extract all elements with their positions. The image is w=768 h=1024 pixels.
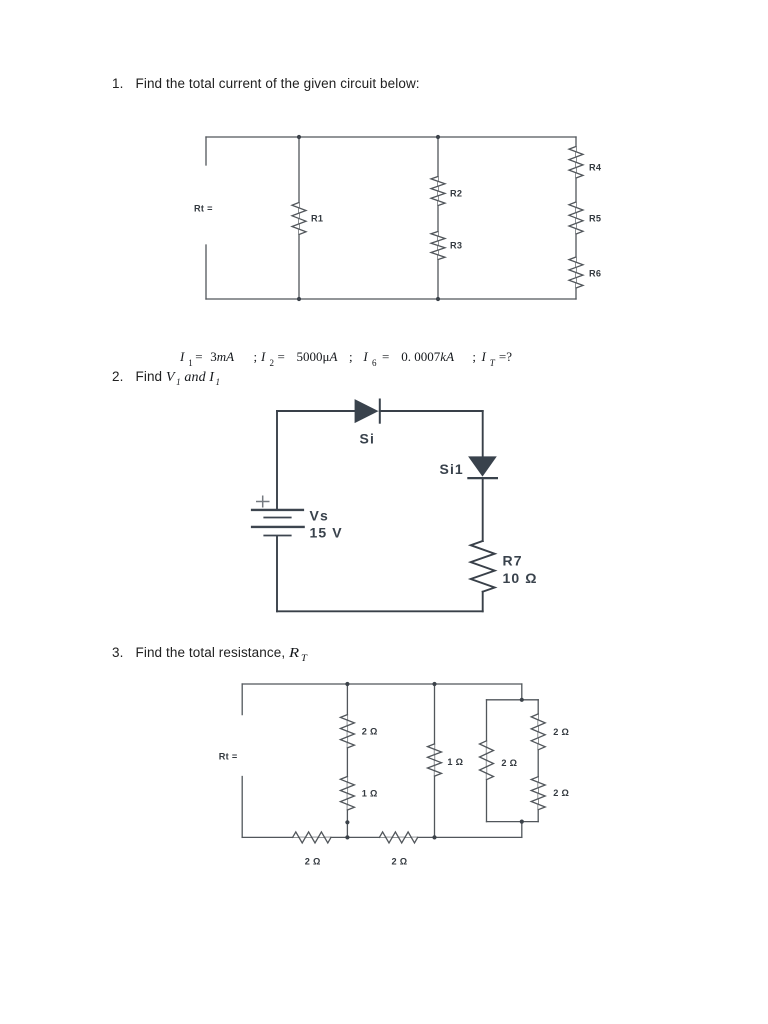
equation: ; I6 = 0.0007kA: [349, 349, 353, 365]
question 2 text: [112, 369, 220, 387]
wire R2/R3 branch: [437, 137, 439, 299]
circuit 3 bottom wire: [242, 836, 522, 838]
equation: I1 = 3mA: [180, 349, 184, 365]
svg-text:Si: Si: [360, 431, 375, 447]
svg-text:2 Ω: 2 Ω: [392, 857, 408, 867]
diode Si1 (anode triangle, pointing down): [468, 456, 497, 476]
svg-text:R7: R7: [503, 553, 523, 569]
resistor R7: [471, 541, 495, 592]
resistor R6: [569, 257, 583, 288]
inner loop right branch wire: [537, 700, 539, 822]
resistor 2 ohm inner loop left: [480, 741, 494, 780]
diode Si1 cathode bar: [467, 477, 498, 479]
node dot branch 2 bottom rail: [432, 835, 436, 839]
wire branch 1 (2ohm + 1ohm): [346, 684, 348, 837]
circuit 3 top-right corner drop to inner loop: [521, 684, 523, 700]
node dot branch 1 bottom rail: [345, 835, 349, 839]
circuit 2 left wire upper (to battery): [276, 411, 278, 509]
svg-text:Si1: Si1: [440, 461, 464, 477]
circuit 2 left wire lower (from battery): [276, 536, 278, 611]
node dot inner loop top: [520, 698, 524, 702]
node dot top branch 2: [432, 682, 436, 686]
resistor 2 ohm inner loop right upper: [531, 714, 545, 750]
svg-text:Rt =: Rt =: [219, 752, 238, 762]
svg-text:R4: R4: [589, 163, 602, 173]
svg-text:2 Ω: 2 Ω: [362, 727, 378, 737]
node dot top of R1 branch: [297, 135, 301, 139]
circuit 1 left wire lower (open terminal): [205, 245, 207, 299]
equation: ; I2 = 5000uA: [254, 349, 258, 365]
diode Si cathode bar: [379, 399, 381, 424]
svg-text:2 Ω: 2 Ω: [305, 857, 321, 867]
resistor 2 ohm inner loop right lower: [531, 777, 545, 810]
svg-text:R3: R3: [450, 241, 462, 251]
resistor R5: [569, 202, 583, 234]
node dot top of R2 branch: [436, 135, 440, 139]
svg-text:2 Ω: 2 Ω: [553, 727, 569, 737]
circuit 2 right wire bottom (R7 to bottom): [482, 592, 484, 612]
circuit 3 left wire upper (open terminal): [241, 684, 243, 715]
svg-text:1 Ω: 1 Ω: [362, 789, 378, 799]
battery Vs plate 3 (long): [251, 526, 305, 528]
equation: ; IT =?: [472, 349, 476, 365]
svg-text:R5: R5: [589, 214, 601, 224]
circuit 1 bottom wire: [206, 298, 576, 300]
circuit 3 top wire: [242, 683, 522, 685]
svg-text:Rt =: Rt =: [194, 204, 213, 214]
circuit 3 left wire lower (open terminal): [241, 777, 243, 838]
resistor 2 ohm bottom right (horizontal): [379, 832, 417, 843]
resistor R1: [292, 203, 306, 235]
inner loop top wire: [487, 699, 539, 701]
diode Si (anode triangle): [355, 399, 379, 423]
svg-text:10 Ω: 10 Ω: [503, 570, 538, 586]
wire branch 2 (1ohm): [434, 684, 436, 837]
svg-text:R1: R1: [311, 214, 323, 224]
inner loop left branch wire: [486, 700, 488, 822]
circuit 1 left wire upper (open terminal): [205, 137, 207, 165]
node dot branch 1 above bottom rail: [345, 820, 349, 824]
circuit 2 bottom wire: [277, 610, 483, 612]
wire R1 branch: [298, 137, 300, 299]
svg-text:1 Ω: 1 Ω: [447, 757, 463, 767]
circuit 2 right wire top (to diode Si1): [482, 411, 484, 456]
battery Vs plate 1 (long): [251, 509, 304, 511]
battery Vs plate 2 (short): [263, 517, 291, 519]
battery Vs plate 4 (short): [263, 535, 291, 537]
svg-text:R2: R2: [450, 189, 462, 199]
circuit 2 top wire right of diode: [380, 410, 483, 412]
question 1 text: [112, 76, 420, 91]
node dot top branch 1: [345, 682, 349, 686]
node dot bottom of R3 branch: [436, 297, 440, 301]
inner loop bottom wire: [487, 821, 539, 823]
svg-text:R6: R6: [589, 269, 601, 279]
svg-text:15 V: 15 V: [310, 525, 343, 541]
resistor 1 ohm branch 1: [340, 777, 354, 811]
circuit 2 top wire left of diode: [277, 410, 355, 412]
node dot inner loop bottom: [520, 820, 524, 824]
svg-text:2 Ω: 2 Ω: [501, 758, 517, 768]
resistor R4: [569, 147, 583, 179]
resistor R2: [431, 177, 445, 206]
wire right branch: [575, 137, 577, 299]
question 3 text: [112, 645, 304, 663]
battery Vs plus sign: [256, 496, 270, 508]
resistor 2 ohm branch 1: [340, 715, 354, 748]
resistor 1 ohm branch 2: [428, 744, 442, 776]
svg-text:Vs: Vs: [310, 508, 329, 524]
svg-text:2 Ω: 2 Ω: [553, 788, 569, 798]
inner loop bottom drop wire: [521, 822, 523, 838]
circuit 2 right wire middle (Si1 to R7): [482, 479, 484, 541]
node dot bottom of R1 branch: [297, 297, 301, 301]
resistor 2 ohm bottom left (horizontal): [293, 832, 331, 843]
resistor R3: [431, 232, 445, 260]
circuit 1 top wire: [206, 136, 576, 138]
